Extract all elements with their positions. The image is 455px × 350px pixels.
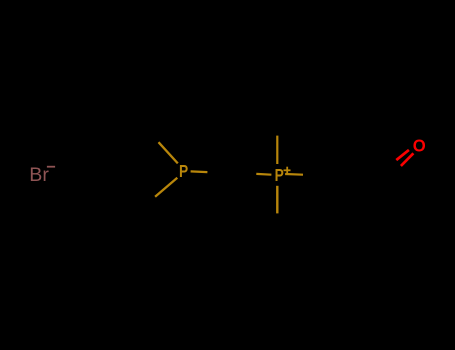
bond methylene to P+ (left half at P+) bbox=[256, 173, 271, 176]
bond P to methylene (right) bbox=[191, 170, 208, 173]
bond P to upper-left methyl bbox=[159, 142, 178, 163]
carbonyl double bond line 2 (outer) bbox=[401, 153, 414, 166]
plus charge on P (vertical bar) bbox=[286, 167, 288, 174]
svg-text:P: P bbox=[179, 163, 188, 182]
minus charge on Br bbox=[47, 166, 55, 168]
bond P to lower-left methyl bbox=[155, 178, 177, 197]
svg-text:Br: Br bbox=[29, 164, 49, 186]
carbonyl double bond line 1 (inner) bbox=[396, 150, 409, 160]
bond P+ to bottom methyl bbox=[276, 186, 278, 214]
bond P+ to top methyl bbox=[276, 136, 278, 164]
svg-text:P: P bbox=[275, 167, 284, 186]
svg-text:O: O bbox=[413, 135, 426, 155]
plus charge on P (horizontal bar) bbox=[284, 169, 291, 171]
bond P+ to right chain bbox=[285, 173, 303, 176]
